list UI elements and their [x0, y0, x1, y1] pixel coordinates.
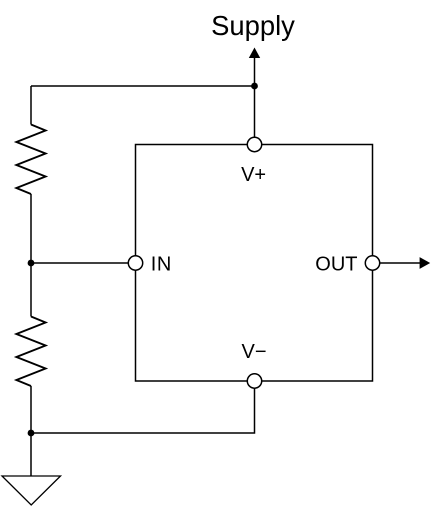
svg-text:V+: V+	[241, 164, 266, 186]
svg-text:OUT: OUT	[315, 254, 357, 276]
svg-text:V−: V−	[241, 341, 266, 363]
svg-text:IN: IN	[151, 253, 172, 275]
svg-text:Supply: Supply	[211, 10, 295, 41]
